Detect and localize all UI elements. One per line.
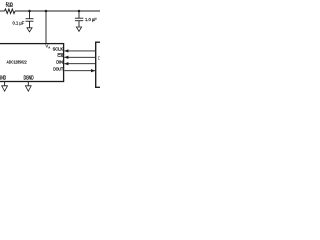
arrow DIN bbox=[64, 62, 68, 65]
capacitor C1 lead bbox=[29, 11, 31, 18]
ground C1 bbox=[27, 28, 32, 32]
op chip box U1 ADC128S022 bbox=[0, 44, 64, 82]
svg-text:DGND: DGND bbox=[24, 75, 34, 81]
svg-text:D: D bbox=[98, 55, 100, 60]
svg-text:ADC128S022: ADC128S022 bbox=[7, 60, 27, 65]
overline CS bbox=[57, 52, 63, 55]
svg-text:AGND: AGND bbox=[0, 75, 6, 81]
node junction dots bbox=[28, 10, 80, 13]
svg-text:0.1 µF: 0.1 µF bbox=[13, 20, 25, 25]
wire bbox=[15, 10, 100, 12]
svg-text:51Ω: 51Ω bbox=[6, 3, 13, 9]
capacitor C2 lead bbox=[78, 11, 80, 18]
svg-text:DIN: DIN bbox=[56, 60, 63, 66]
ground C2 bbox=[76, 27, 81, 31]
wire bbox=[0, 10, 5, 12]
arrow SCLK bbox=[64, 49, 68, 52]
wire VA tap bbox=[45, 11, 47, 44]
node C2 junction bbox=[78, 10, 81, 13]
capacitor C2 1.0uF bbox=[75, 18, 83, 27]
svg-text:1.0 µF: 1.0 µF bbox=[85, 17, 97, 22]
wire AGND pin bbox=[4, 82, 6, 86]
wire DIN bbox=[64, 63, 95, 65]
svg-text:VA: VA bbox=[45, 44, 50, 50]
arrow DOUT bbox=[91, 69, 95, 72]
wire DGND pin bbox=[27, 82, 29, 86]
svg-text:SCLK: SCLK bbox=[53, 47, 64, 53]
arrow CS bbox=[64, 56, 68, 59]
resistor R1 51ohm bbox=[5, 9, 16, 14]
node VA junction bbox=[45, 10, 48, 13]
box controller bbox=[96, 42, 108, 87]
ground AGND bbox=[2, 86, 8, 91]
node A junction bbox=[28, 10, 31, 13]
ground DGND bbox=[25, 86, 31, 91]
capacitor C1 0.1uF bbox=[26, 19, 34, 28]
svg-text:CS: CS bbox=[57, 53, 63, 59]
wire DOUT bbox=[64, 70, 95, 72]
wire SCLK bbox=[64, 50, 95, 52]
svg-text:DOUT: DOUT bbox=[53, 66, 63, 72]
wire CS bbox=[64, 56, 95, 58]
